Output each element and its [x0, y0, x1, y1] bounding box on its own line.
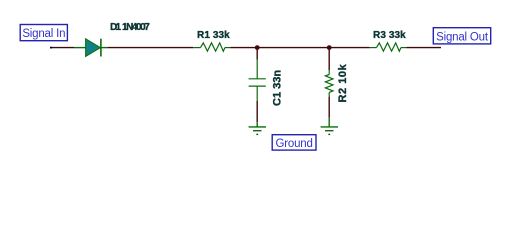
svg-text:R2 10k: R2 10k	[337, 63, 349, 102]
wire	[406, 47, 441, 49]
label Ground	[272, 135, 316, 150]
svg-text:Signal In: Signal In	[22, 28, 65, 40]
svg-text:C1 33n: C1 33n	[272, 70, 284, 106]
wire	[256, 101, 258, 122]
port Signal Out	[433, 28, 490, 44]
wire	[256, 48, 258, 60]
svg-text:D1: D1	[110, 22, 122, 33]
diode D1	[74, 39, 108, 57]
node junction 1	[255, 45, 260, 50]
ground	[321, 118, 338, 135]
ground	[249, 122, 266, 134]
port Signal In	[20, 25, 67, 41]
svg-text:1N4007: 1N4007	[122, 22, 150, 33]
resistor R2	[325, 70, 333, 97]
svg-text:Ground: Ground	[276, 138, 313, 150]
label D1 1N4007	[110, 22, 150, 33]
capacitor C1	[249, 60, 266, 101]
svg-text:R3 33k: R3 33k	[373, 30, 406, 41]
wire	[328, 97, 330, 118]
resistor R1	[193, 43, 230, 51]
svg-text:Signal Out: Signal Out	[436, 31, 489, 43]
wire	[50, 47, 74, 49]
resistor R3	[370, 43, 406, 51]
wire	[328, 48, 330, 70]
node junction 2	[327, 45, 332, 50]
svg-text:R1 33k: R1 33k	[197, 30, 230, 41]
wire	[230, 47, 370, 49]
wire	[108, 47, 194, 49]
